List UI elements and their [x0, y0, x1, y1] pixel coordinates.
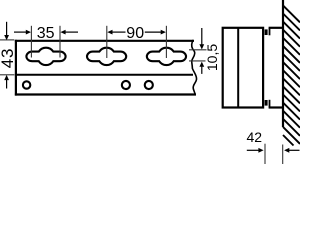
rail profile top flange vertical	[269, 28, 271, 35]
svg-text:35: 35	[37, 25, 55, 42]
dim 90 extension line right	[165, 26, 167, 58]
dim 90 right arrow	[145, 31, 162, 33]
rail left edge	[15, 40, 17, 96]
rail middle bend line	[15, 74, 193, 76]
dim 43 top arrow	[6, 22, 8, 36]
round hole 1	[23, 81, 30, 88]
dim 42 right extension line	[282, 145, 284, 165]
svg-text:43: 43	[0, 48, 17, 69]
keyhole slot 1	[26, 48, 65, 65]
dim 35 extension line left	[30, 26, 32, 58]
wall face line	[282, 0, 284, 127]
screw head bottom	[265, 100, 268, 106]
rail top edge	[15, 40, 194, 42]
round hole 3	[145, 81, 153, 89]
wall hatching	[283, 5, 300, 145]
screw head top	[265, 29, 268, 35]
dim 42 left arrow	[247, 149, 259, 151]
svg-text:10,5: 10,5	[204, 44, 220, 71]
dim 35 extension line right	[59, 26, 61, 58]
dim 10,5 lower tick	[189, 60, 206, 62]
rail profile bottom flange vertical	[269, 100, 271, 108]
svg-text:90: 90	[126, 25, 144, 42]
dim 42 left extension line	[264, 144, 266, 164]
dim 42 right arrow	[284, 148, 289, 153]
rail profile bottom flange horizontal	[269, 106, 284, 108]
dim 10,5 upper tick	[189, 49, 207, 51]
svg-text:42: 42	[247, 129, 263, 145]
cabinet interior line	[237, 28, 239, 107]
dim 35 right arrow	[60, 30, 65, 35]
dim 35 left arrow	[14, 31, 27, 33]
dim 90 left arrow	[107, 30, 112, 35]
dim 10,5 lower arrow	[199, 62, 204, 67]
dim 43 bottom extension tick	[0, 74, 14, 76]
dim 10,5 upper arrow	[201, 28, 203, 45]
keyhole slot 2	[87, 48, 126, 65]
rail break line (torn right end)	[192, 40, 197, 96]
dim 43 top extension tick	[0, 39, 14, 41]
cabinet box outline (side view)	[223, 28, 263, 108]
dim 43 bottom arrow	[4, 75, 9, 80]
round hole 2	[122, 81, 130, 89]
rail profile top flange horizontal	[269, 27, 284, 29]
dim 90 extension line left	[106, 26, 108, 58]
rail bottom edge	[15, 93, 196, 95]
keyhole slot 3	[147, 48, 186, 65]
